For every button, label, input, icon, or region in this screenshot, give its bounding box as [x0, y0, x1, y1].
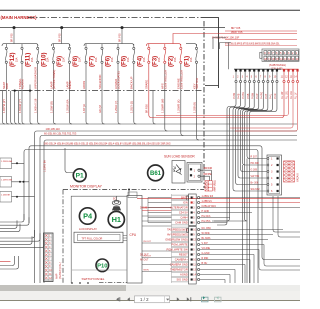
fuse (F6)	[101, 44, 103, 63]
wire red long line	[137, 198, 300, 200]
svg-text:P-4R: P-4R	[274, 93, 277, 99]
svg-text:15A: 15A	[47, 57, 50, 62]
wire corner stub b	[220, 43, 232, 50]
wire bundle line 4	[44, 140, 297, 143]
svg-text:IN OUT: IN OUT	[144, 241, 152, 243]
svg-text:P-5B: P-5B	[247, 93, 250, 99]
svg-text:D-SUB: D-SUB	[140, 208, 148, 210]
wire bundle line 6	[24, 150, 258, 284]
svg-text:05W Y05: 05W Y05	[231, 30, 243, 34]
svg-text:SUN LOAD SENSOR: SUN LOAD SENSOR	[164, 154, 195, 158]
svg-text:WR/94R: WR/94R	[204, 168, 213, 170]
svg-text:8: 8	[264, 76, 266, 79]
wire below fuse (F1)	[180, 64, 182, 91]
svg-text:17: 17	[268, 58, 271, 61]
wires feed continuations	[243, 159, 248, 284]
svg-text:15A: 15A	[79, 57, 82, 62]
wires sensor out	[200, 170, 211, 176]
svg-text:RL 1W: RL 1W	[281, 91, 284, 99]
wire bundle line 5	[29, 146, 300, 260]
svg-text:WIPER/WASHER: WIPER/WASHER	[34, 67, 38, 89]
svg-text:V 307: V 307	[202, 242, 209, 245]
svg-text:8Y05,8L05,8P05,8T05,8U05,8W05,: 8Y05,8L05,8P05,8T05,8U05,8W05,05R,05B,05…	[225, 43, 280, 46]
svg-text:8R Y05: 8R Y05	[10, 33, 14, 42]
fuse (F3)	[148, 44, 150, 63]
wires table left feeds	[148, 197, 172, 199]
fuse (F2)	[164, 44, 166, 63]
wire below fuse (F2)	[164, 64, 166, 91]
row CAM GND	[172, 220, 189, 225]
svg-text:P-4T: P-4T	[265, 93, 268, 99]
node junction x122	[121, 26, 124, 29]
wire riser x65	[65, 148, 75, 173]
svg-text:AMP (R)(L): AMP (R)(L)	[214, 180, 217, 192]
svg-text:B61: B61	[150, 171, 162, 177]
wire pin 8 run	[247, 83, 268, 159]
toolbar prev-view icon	[202, 297, 209, 302]
fuse (F5)	[117, 44, 119, 63]
wire monitor display dash left	[62, 190, 64, 284]
svg-text:1.25WB (X): 1.25WB (X)	[177, 99, 181, 113]
svg-text:16: 16	[272, 58, 275, 61]
svg-text:1: 1	[271, 158, 273, 161]
fuse (F11)	[21, 44, 23, 63]
row PGM_WRITE	[172, 242, 189, 247]
pin 9 CN-A4	[271, 69, 273, 71]
row AV-SPEED(SW2)	[172, 232, 189, 237]
pin 13 CN-A4 red	[292, 69, 294, 71]
svg-text:5: 5	[251, 76, 253, 79]
fuse (F10)	[37, 44, 39, 63]
svg-text:4: 4	[193, 213, 195, 215]
svg-text:11: 11	[281, 76, 284, 79]
svg-text:TFT FULL COLOR: TFT FULL COLOR	[82, 237, 103, 240]
wire F2 output to bundle2	[165, 91, 168, 131]
svg-text:P-4TG: P-4TG	[242, 92, 245, 99]
wire bundle line 5 drop	[28, 148, 30, 223]
wire F0 output to bundle4	[197, 91, 200, 140]
svg-text:8R Y05: 8R Y05	[57, 33, 61, 42]
svg-text:P4: P4	[83, 212, 93, 221]
wire pin 4 run	[236, 83, 268, 185]
svg-text:RESET: RESET	[179, 253, 188, 257]
table left border	[171, 194, 173, 283]
wires from left boxes	[12, 163, 35, 196]
svg-text:P-4P: P-4P	[256, 93, 259, 99]
wire buzzer feed	[116, 196, 118, 200]
wire harness right corner	[201, 18, 219, 88]
svg-text:8R R05: 8R R05	[145, 104, 149, 113]
connector CPU pin housing lower	[189, 227, 197, 285]
svg-text:BL 303b: BL 303b	[202, 237, 211, 240]
row PGM_WRITE SW	[172, 247, 189, 252]
svg-text:1.25B 8E: 1.25B 8E	[1, 195, 11, 197]
op circle H1	[108, 211, 124, 227]
svg-text:3: 3	[271, 171, 273, 174]
svg-text:HORN: HORN	[82, 81, 86, 89]
svg-text:1.25LW (6A: 1.25LW (6A	[65, 99, 69, 113]
fuse (F9)	[52, 44, 54, 63]
svg-text:P-4B: P-4B	[238, 93, 241, 99]
wire fuse bus group 2	[51, 44, 70, 46]
svg-text:P-4W: P-4W	[233, 92, 236, 99]
svg-text:1.6P (H: 1.6P (H	[82, 104, 86, 113]
wire bundle line 1	[0, 123, 297, 125]
svg-text:(SUB13) (CSL): (SUB13) (CSL)	[59, 262, 62, 279]
pin 3 CN-A4	[244, 69, 246, 71]
wire corner stub c	[228, 43, 230, 70]
svg-text:P10: P10	[97, 263, 107, 269]
svg-text:RL 1Y: RL 1Y	[295, 92, 298, 99]
wire bundle line 4 drop	[43, 143, 45, 284]
svg-text:IGN: IGN	[183, 201, 188, 205]
component YAZAKI table	[284, 161, 295, 182]
svg-text:DS OUT: DS OUT	[140, 255, 149, 257]
svg-text:MON: MON	[144, 270, 150, 272]
svg-text:1.25RL 9/3: 1.25RL 9/3	[202, 195, 214, 198]
pin 6 CN-A4	[258, 69, 260, 71]
switch symbols row	[71, 282, 72, 283]
svg-text:BACK-UP: BACK-UP	[130, 76, 134, 89]
svg-text:1.25LY (5): 1.25LY (5)	[130, 101, 134, 113]
svg-text:SPARE: SPARE	[145, 80, 149, 89]
svg-text:B NU: B NU	[202, 262, 208, 265]
pin 7 CN-A4	[262, 69, 264, 71]
svg-text:VO-09E: VO-09E	[202, 247, 211, 250]
op circle P4	[79, 208, 95, 224]
svg-text:6: 6	[255, 76, 257, 79]
wire pin 7 run	[243, 83, 268, 165]
wire F1 output to bundle3	[181, 91, 184, 136]
svg-text:12: 12	[285, 76, 288, 79]
pin 14 CN-A4 red	[296, 69, 298, 71]
svg-text:SWITCH PANEL: SWITCH PANEL	[82, 277, 105, 281]
svg-text:PG 04/b: PG 04/b	[202, 215, 211, 218]
svg-text:5: 5	[193, 250, 195, 252]
wire harness stub	[205, 85, 219, 87]
node junction x14	[13, 26, 16, 29]
svg-text:TA/SPEED(SW1): TA/SPEED(SW1)	[167, 228, 188, 232]
fuse F0	[195, 44, 197, 63]
svg-text:3: 3	[193, 208, 195, 210]
svg-text:5: 5	[271, 184, 273, 187]
svg-text:CAM4: CAM4	[180, 216, 188, 220]
pin 1 CN-A4	[235, 69, 237, 71]
row C34 5V	[172, 210, 189, 215]
row CAMERA+	[172, 257, 189, 262]
fuse (F1)	[180, 44, 182, 63]
wire monitor display dash top	[63, 189, 204, 191]
fuse (F4)	[133, 44, 135, 63]
svg-text:1.25RG 8A: 1.25RG 8A	[44, 160, 47, 172]
wire below fuse (F12)	[5, 64, 7, 91]
svg-text:15A: 15A	[111, 57, 114, 62]
svg-text:YAZAKI: YAZAKI	[297, 173, 300, 182]
svg-text:ALARM: ALARM	[21, 79, 25, 89]
svg-text:15A: 15A	[15, 57, 18, 62]
svg-text:3: 3	[242, 76, 244, 79]
node monitor bus junction	[128, 189, 130, 191]
svg-text:0.85L/W 9/19: 0.85L/W 9/19	[202, 205, 217, 208]
svg-text:9: 9	[269, 76, 271, 79]
svg-text:GR (M: GR (M	[98, 105, 102, 113]
wire bundle line 3 drop	[39, 138, 41, 283]
svg-text:4: 4	[271, 177, 273, 180]
wires TFT to CPU	[123, 236, 127, 241]
relay box L1	[0, 158, 12, 169]
svg-text:1.25W (B): 1.25W (B)	[49, 101, 53, 113]
sensor box	[172, 161, 185, 184]
svg-text:BATT: BATT	[181, 196, 188, 200]
svg-text:SOLENOID: SOLENOID	[98, 75, 102, 89]
node junction x61.7	[60, 26, 63, 29]
relay box L2	[0, 177, 12, 188]
wire fuse bus group 1	[2, 44, 38, 46]
wire pin 1 run	[217, 83, 236, 225]
svg-text:1: 1	[194, 169, 196, 172]
svg-text:6: 6	[271, 190, 273, 193]
row THERMISTOR	[172, 267, 189, 272]
svg-text:THERMISTOR: THERMISTOR	[170, 268, 188, 272]
svg-text:6: 6	[193, 223, 195, 225]
svg-text:2: 2	[194, 175, 196, 178]
svg-text:SIG 6X2: SIG 6X2	[251, 188, 261, 191]
svg-text:H1: H1	[112, 215, 121, 224]
svg-text:VW 705: VW 705	[251, 175, 260, 178]
svg-text:15A: 15A	[95, 57, 98, 62]
component AMP mini table	[205, 181, 212, 191]
wire fuse bus group 3	[84, 44, 134, 46]
wire bundle line 2	[35, 131, 298, 134]
svg-text:3: 3	[193, 245, 195, 247]
svg-text:15A: 15A	[158, 57, 161, 62]
wires bottom right staircase	[273, 196, 300, 232]
wire pin 3 run	[233, 83, 267, 191]
svg-text:15A: 15A	[190, 57, 193, 62]
toolbar page input box	[135, 296, 170, 303]
svg-text:P-4L: P-4L	[270, 93, 273, 99]
svg-text:LCD DISPLAY: LCD DISPLAY	[79, 227, 97, 231]
svg-text:CAM GND: CAM GND	[175, 221, 188, 225]
connector CPU pin housing upper	[189, 194, 197, 226]
svg-text:SC: SC	[113, 196, 117, 200]
svg-text:2: 2	[237, 76, 239, 79]
svg-text:8R Y05: 8R Y05	[118, 33, 122, 42]
svg-text:1.25WR (W): 1.25WR (W)	[161, 99, 165, 113]
connector AMP SUB13	[44, 233, 54, 282]
toolbar next-view icon	[215, 297, 222, 302]
row IGN	[172, 200, 189, 205]
wire red netlist line 2	[225, 45, 297, 47]
row CAMERA GND	[172, 262, 189, 267]
svg-text:ALTERNATOR: ALTERNATOR	[170, 206, 188, 210]
pin 10 CN-A4	[276, 69, 278, 71]
wire below fuse (F4)	[133, 64, 135, 91]
op circle B61	[148, 165, 164, 181]
wire below fuse F0	[196, 64, 198, 91]
toolbar next-page button	[177, 297, 180, 301]
svg-text:(WORK WAVE): (WORK WAVE)	[52, 70, 56, 89]
svg-text:1.00B r5 )16: 1.00B r5 )16	[34, 98, 38, 113]
svg-text:R 307: R 307	[251, 156, 258, 159]
wire below fuse (F9)	[53, 64, 55, 91]
wires cpu right stubs	[142, 216, 172, 226]
svg-text:60 (05),60 (15),705,702,703: 60 (05),60 (15),705,702,703	[44, 132, 77, 136]
svg-text:SWITCH: SWITCH	[195, 78, 199, 89]
svg-text:2: 2	[193, 203, 195, 205]
CPU block	[127, 196, 142, 284]
sensor connector CN-B61	[187, 163, 202, 183]
wire red stub	[0, 261, 11, 263]
wire below fuse (F5)	[117, 64, 119, 91]
svg-text:13: 13	[290, 76, 293, 79]
svg-text:13: 13	[284, 58, 287, 61]
svg-text:ALM: ALM	[5, 83, 9, 89]
svg-text:P GND: P GND	[202, 210, 210, 213]
toolbar prev-page button	[127, 297, 130, 301]
svg-text:2: 2	[271, 164, 273, 167]
wire pin 6 run	[241, 83, 268, 172]
svg-text:AGND: AGND	[180, 273, 188, 277]
wires left edge stubs	[0, 214, 24, 222]
svg-text:AV-SPEED(SW2): AV-SPEED(SW2)	[167, 233, 188, 237]
svg-text:18: 18	[264, 58, 267, 61]
fuse (F12)	[5, 44, 7, 63]
svg-text:CONTROLLER: CONTROLLER	[163, 70, 167, 89]
svg-text:15A: 15A	[143, 57, 146, 62]
row BATT	[172, 195, 189, 200]
svg-text:1: 1	[233, 76, 235, 79]
wire bundle line 6 drop	[23, 152, 25, 220]
svg-text:CPU: CPU	[130, 233, 137, 237]
wire F3 red output to red bundle	[149, 83, 284, 118]
svg-text:GND(R)(SW GND): GND(R)(SW GND)	[165, 238, 188, 242]
svg-text:G-GND: G-GND	[202, 252, 210, 255]
svg-text:RL 1R1: RL 1R1	[290, 90, 293, 99]
wire fuse bus group 4 red	[146, 44, 181, 46]
wires extra feeders left	[3, 91, 6, 124]
pin 12 CN-A4 red	[287, 69, 289, 71]
wire pin 9 run	[214, 83, 272, 221]
svg-text:10: 10	[274, 76, 277, 79]
wire fuse bus group 5	[186, 44, 197, 46]
svg-text:P-4PG: P-4PG	[260, 92, 263, 99]
svg-text:P-5W: P-5W	[251, 92, 254, 99]
row TA/SPEED(SW1)	[172, 227, 189, 232]
svg-text:NC, R66: NC, R66	[202, 227, 212, 230]
photodiode D1	[176, 165, 182, 176]
svg-text:12: 12	[288, 58, 291, 61]
monitor unit solid border	[71, 196, 127, 283]
svg-text:500 (05),24 (05),8A (05),8B (0: 500 (05),24 (05),8A (05),8B (05),9 (05),…	[44, 143, 171, 146]
svg-text:15A: 15A	[127, 57, 130, 62]
wire pin 2 run	[212, 83, 241, 221]
wire dash-dot inner vertical divider	[203, 21, 205, 188]
wire red feed riser	[173, 34, 297, 44]
svg-text:LOCK (GATE): LOCK (GATE)	[117, 71, 121, 89]
pin 4 CN-A4	[249, 69, 251, 71]
op circle P1	[73, 169, 86, 182]
wire bundle line 2 drop	[34, 134, 36, 284]
wire red bus upper	[225, 30, 297, 32]
component TFT box	[74, 232, 123, 243]
connector CN-A4 housing	[262, 49, 299, 61]
row RESET	[172, 252, 189, 257]
wire pin bus black	[234, 68, 282, 70]
wire below fuse (F8)	[69, 64, 71, 91]
pin 2 CN-A4	[239, 69, 241, 71]
svg-text:7: 7	[260, 76, 262, 79]
svg-text:P1: P1	[76, 173, 84, 180]
svg-text:5: 5	[193, 218, 195, 220]
node border junctions	[15, 90, 30, 92]
connector CN-6pin	[267, 155, 282, 195]
row AGND	[172, 272, 189, 277]
wire main supply bus	[0, 27, 225, 29]
pin 11 CN-A4 red	[283, 69, 285, 71]
svg-text:1.25RG 8B: 1.25RG 8B	[1, 180, 12, 182]
svg-text:R/EAR: R/EAR	[68, 80, 72, 89]
toolbar first-page button	[116, 297, 119, 301]
pin 8 CN-A4	[267, 69, 269, 71]
svg-text:BW/05E: BW/05E	[204, 174, 213, 176]
svg-text:7: 7	[193, 255, 195, 257]
component junction box B	[128, 192, 137, 198]
svg-text:1.25B 9/1: 1.25B 9/1	[202, 200, 213, 203]
svg-text:SIG GND: SIG GND	[176, 278, 187, 282]
svg-text:1.25LR (7): 1.25LR (7)	[114, 101, 118, 113]
wire below fuse (F10)	[37, 64, 39, 91]
wire below fuse (F11)	[21, 64, 23, 91]
toolbar last-page button	[187, 297, 190, 301]
svg-text:15A: 15A	[31, 57, 34, 62]
svg-text:G 309: G 309	[251, 169, 258, 172]
svg-text:15A: 15A	[174, 57, 177, 62]
svg-text:PGM_WRITE: PGM_WRITE	[172, 243, 188, 247]
svg-text:HD 308: HD 308	[251, 162, 260, 165]
row CAM4	[172, 215, 189, 220]
svg-text:PGM_WRITE SW: PGM_WRITE SW	[166, 248, 188, 252]
wire dash-dot switch panel bottom	[99, 281, 127, 283]
svg-text:B+ 306: B+ 306	[251, 182, 259, 185]
svg-text:100,105,110: 100,105,110	[46, 127, 61, 131]
svg-text:4: 4	[246, 76, 248, 79]
wire top border line	[0, 9, 300, 11]
svg-text:RL 1B1: RL 1B1	[286, 90, 289, 99]
wires cpu to table red	[142, 208, 172, 211]
svg-text:1.25RG 8A: 1.25RG 8A	[1, 160, 12, 163]
svg-text:14: 14	[280, 58, 283, 61]
svg-text:CONTROLLER: CONTROLLER	[179, 70, 183, 89]
svg-text:9: 9	[193, 235, 195, 237]
svg-text:CAMERA+: CAMERA+	[175, 258, 188, 262]
wires left edge stubs lower	[0, 256, 19, 269]
wire red netlist line 1	[225, 39, 297, 41]
svg-text:1.25B (K): 1.25B (K)	[192, 102, 196, 113]
row GND(R)(SW GND)	[172, 237, 189, 242]
svg-text:AV OUT: AV OUT	[140, 259, 149, 262]
wire corner stub a	[213, 38, 226, 50]
wire pin 10 run	[250, 83, 277, 283]
svg-text:R 06D: R 06D	[202, 257, 209, 260]
wires fuse outputs to bundle 1	[6, 91, 9, 124]
svg-text:15: 15	[276, 58, 279, 61]
svg-text:C34 5V: C34 5V	[179, 211, 188, 215]
relay box L3	[0, 192, 12, 203]
fuse (F8)	[68, 44, 70, 63]
wires red pins runs	[156, 83, 289, 116]
wire below fuse (F7)	[85, 64, 87, 91]
